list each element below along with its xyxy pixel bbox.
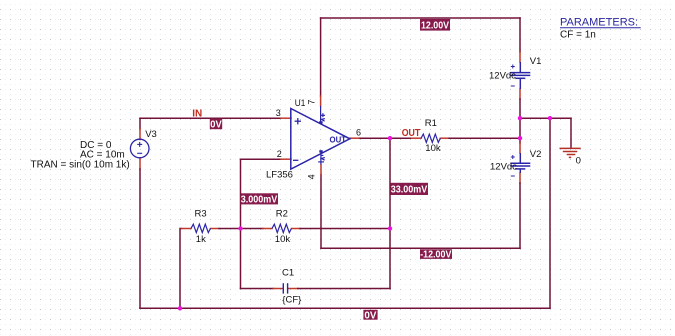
svg-text:10k: 10k [425,143,441,154]
battery V2 plates [510,153,530,173]
junction node OUT [388,136,392,140]
junction node bottom rail / R3 branch [178,306,182,310]
svg-text:{CF}: {CF} [282,294,301,305]
wire IN from V3 to pin3 [140,117,281,119]
op-amp + input sign [295,118,301,124]
wire top rail V+ [321,17,520,19]
V3 bottom pin stub [139,158,141,169]
svg-text:R3: R3 [195,209,207,220]
wire ground drop [570,118,572,148]
V2 top pin stub [519,143,521,153]
resistor R1 zigzag [421,134,440,142]
svg-text:7: 7 [306,100,316,105]
svg-text:3.000mV: 3.000mV [241,195,278,206]
V1 bottom pin stub [519,89,521,99]
svg-text:10k: 10k [275,234,291,245]
svg-text:LF356: LF356 [266,170,293,181]
svg-text:0V: 0V [210,120,222,131]
wire V2 bottom to -12V rail [519,183,521,248]
wire V3 bottom to ground rail [139,169,141,308]
capacitor C1 plates [283,283,287,293]
resistor R2 zigzag [272,224,292,232]
svg-text:12Vdc: 12Vdc [490,161,517,172]
svg-text:IN: IN [192,109,202,120]
svg-text:C1: C1 [282,267,294,278]
svg-text:4: 4 [307,174,317,179]
V3 plus sign [137,142,142,147]
bias voltage label 33.00mV [391,183,429,196]
wire R2 to feedback vertical [300,228,390,230]
wire -12V rail [321,247,520,249]
wire V3 top riser [139,118,141,129]
junction node at V1 bottom / ground branch [518,116,522,120]
svg-text:3: 3 [276,108,281,118]
C1 left stub [273,288,283,290]
bias voltage label -12.00V [420,249,452,260]
pin 6 stub [350,137,360,139]
bias voltage label 0V at bottom rail [363,310,377,322]
wire feedback bottom left segment [241,288,274,290]
ground 0 symbol [560,148,581,157]
svg-text:TRAN = sin(0 10m 1k): TRAN = sin(0 10m 1k) [31,159,130,170]
svg-text:1k: 1k [196,234,206,245]
wire node to R2 [241,228,264,230]
svg-text:12Vdc: 12Vdc [489,71,516,82]
svg-text:CF = 1n: CF = 1n [560,30,596,41]
op-amp V+ power pin graphics [321,106,325,122]
wire pin2 horizontal [241,158,282,160]
C1 right stub [288,288,298,290]
V2 polarity marks [511,155,515,176]
wire R3 to node [219,228,241,230]
wire pin7 riser [320,18,322,96]
pin 7 stub [320,96,322,106]
resistor R3 zigzag [191,224,211,232]
R3 left stub [182,228,192,230]
wire right long vertical [549,118,551,308]
wire V1 to V2 [519,99,521,143]
pin 3 stub [281,117,291,119]
svg-text:V2: V2 [530,149,542,160]
PARAMETERS underline [560,27,641,29]
R1 left stub [412,137,422,139]
V1 top pin stub [519,52,521,62]
svg-text:R1: R1 [425,118,437,129]
svg-text:33.00mV: 33.00mV [391,185,428,196]
battery V1 plates [510,62,530,89]
wire bottom rail [140,307,550,309]
bias voltage label 3.000mV [241,193,279,205]
wire V1 top [519,18,521,52]
junction node ground branch / right vertical [548,116,552,120]
svg-text:0: 0 [576,155,581,166]
svg-text:R2: R2 [276,209,288,220]
wire pin4 drop [320,175,322,249]
junction node R2 right / feedback vertical [388,226,392,230]
svg-text:OUT: OUT [402,128,421,139]
wire R1 to V rail [449,137,520,139]
svg-text:2: 2 [277,149,282,159]
wire output feedback vertical [389,138,391,288]
source V3 circle [130,139,149,158]
R1 right stub [440,137,449,139]
wire pin6 to OUT node [360,137,390,139]
V3 minus sign [137,152,142,154]
junction node R1 right / supply vertical [518,136,522,140]
op-amp - input sign [293,159,298,161]
svg-text:6: 6 [356,128,361,138]
svg-text:PARAMETERS:: PARAMETERS: [560,17,638,29]
op-amp V- power pin graphics [318,152,325,165]
junction node R3/R2 inverting [238,226,242,230]
wire inverting node vertical [240,159,242,288]
svg-text:V3: V3 [145,129,157,140]
V3 top pin stub [139,129,141,140]
wire R3 branch corner [180,229,182,309]
V2 bottom pin stub [519,173,521,183]
wire C1 to feedback vertical [298,288,390,290]
bias voltage label 0V at IN [210,119,222,131]
svg-text:-12.00V: -12.00V [420,250,451,261]
svg-text:V1: V1 [530,56,542,67]
op-amp U1 triangle [291,109,350,170]
pin 2 stub [281,158,291,160]
R2 left stub [263,228,272,230]
R3 right stub [211,228,220,230]
svg-text:OUT: OUT [330,135,347,145]
bias voltage label 12.00V [420,19,450,32]
svg-text:12.00V: 12.00V [421,20,449,31]
V1 polarity marks [511,65,515,87]
pin 4 stub [320,165,322,175]
R2 right stub [292,228,301,230]
wire OUT node to R1 [390,137,412,139]
wire ground branch horizontal [520,117,571,119]
svg-text:0V: 0V [364,310,376,321]
svg-text:U1: U1 [295,98,306,109]
